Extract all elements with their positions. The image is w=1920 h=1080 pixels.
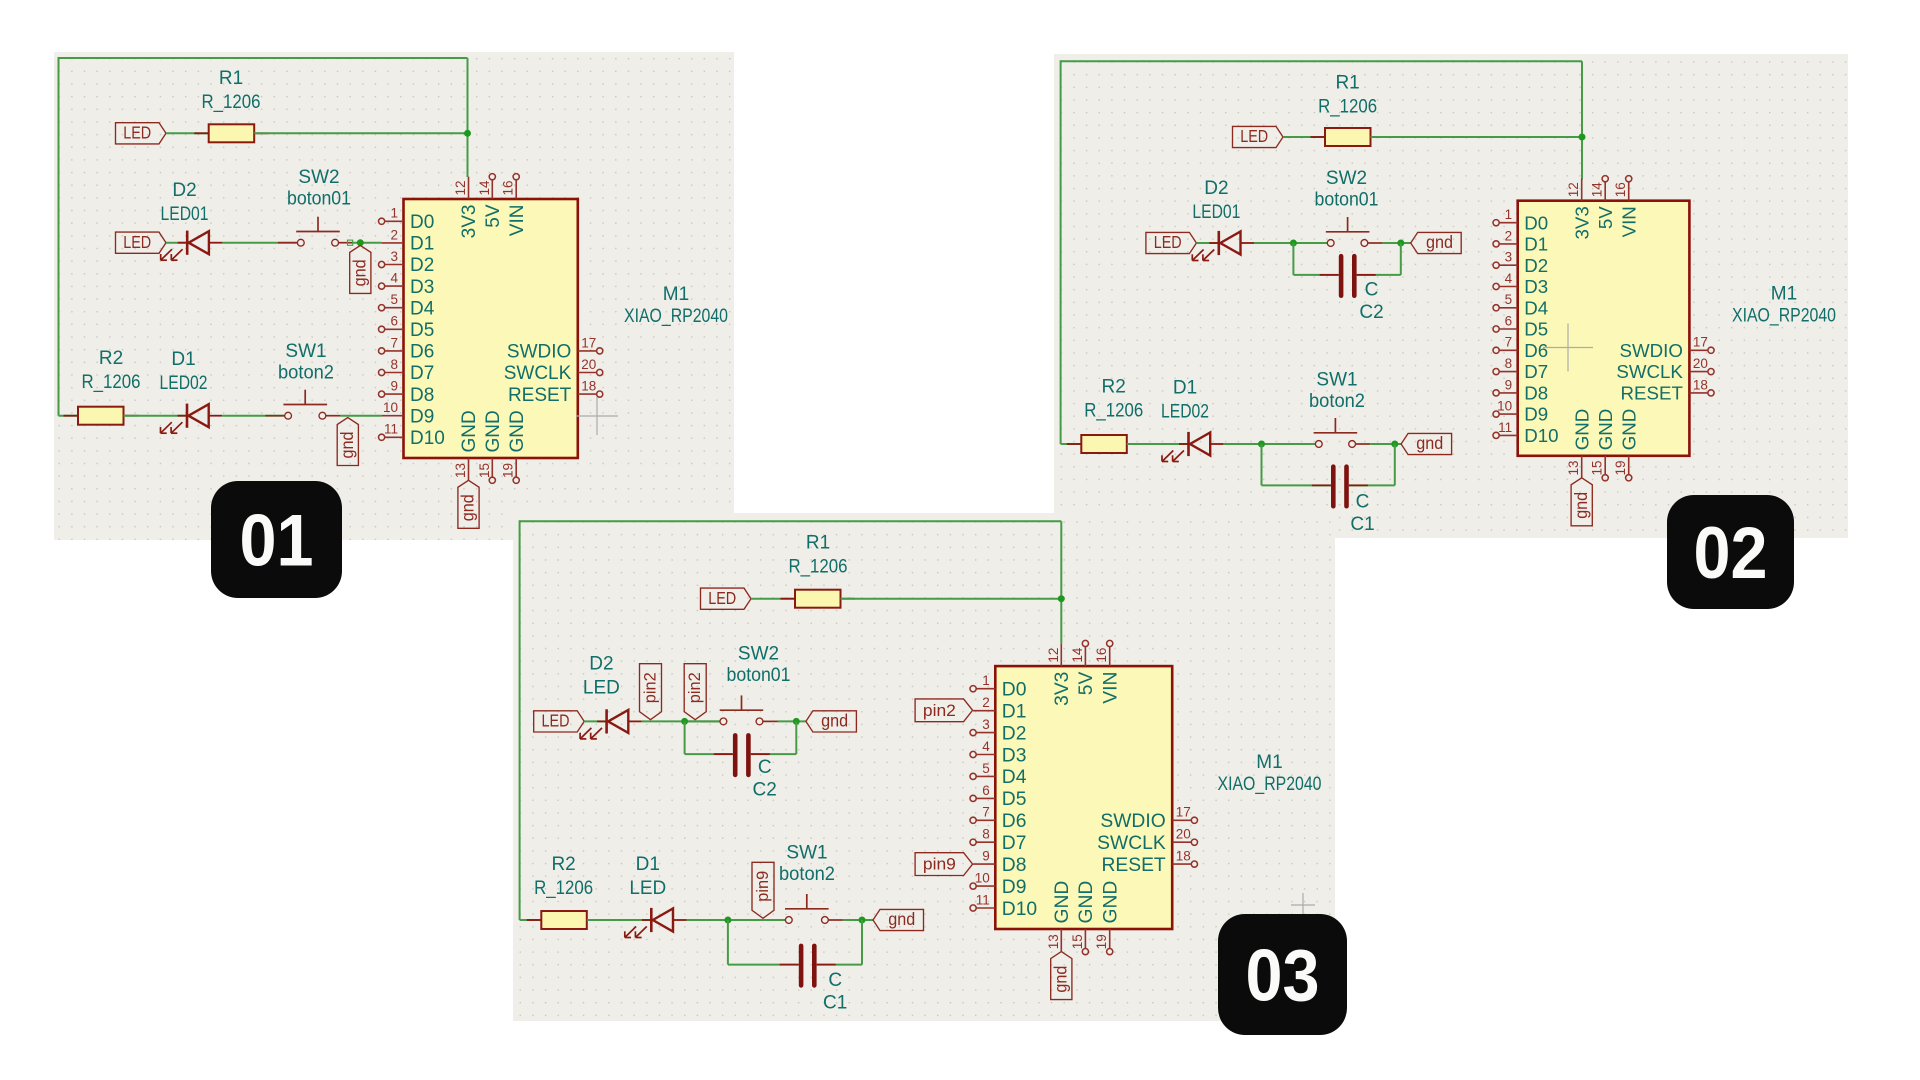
svg-text:D6: D6 (410, 342, 434, 363)
svg-text:R1: R1 (806, 532, 830, 553)
svg-text:GND: GND (459, 410, 480, 452)
svg-text:12: 12 (453, 180, 468, 195)
svg-text:15: 15 (1070, 934, 1085, 949)
hier label pin2 at pin D1 (panel 03) (915, 699, 973, 722)
junction right of SW1 (panel 03) (859, 917, 866, 924)
pin 20 SWCLK (panel 03) (1097, 827, 1197, 854)
svg-text:D4: D4 (1002, 767, 1027, 788)
label C of C2 (panel 03) (758, 757, 772, 778)
pin 3 D2 (panel 01) (379, 249, 435, 276)
svg-text:R_1206: R_1206 (82, 372, 141, 393)
switch SW1 boton2 (panel 02) (1296, 418, 1370, 447)
junction right of SW2 (panel 02) (1397, 240, 1404, 247)
label value of D2 (panel 03) (583, 678, 620, 699)
svg-text:C2: C2 (1359, 302, 1383, 323)
svg-text:SW2: SW2 (1326, 168, 1367, 189)
pin 4 D3 (panel 01) (379, 271, 435, 298)
svg-text:D9: D9 (1002, 877, 1027, 898)
power flag gnd below pin 13 (panel 01) (458, 480, 479, 528)
power label gnd row3 (panel 02) (1401, 433, 1452, 454)
power label gnd row2 (panel 03) (806, 711, 857, 732)
capacitor C2 (panel 03) (714, 735, 770, 775)
power label gnd row2 (panel 01) (350, 245, 371, 293)
cursor crosshair (panel 03) (1291, 893, 1315, 917)
svg-text:17: 17 (1176, 805, 1191, 820)
svg-text:15: 15 (477, 463, 492, 478)
svg-text:C1: C1 (1350, 514, 1374, 535)
wire SW2 to gnd (panel 02) (1382, 242, 1410, 244)
pin 13 GND (panel 03) (1046, 881, 1073, 952)
svg-text:D3: D3 (1002, 745, 1027, 766)
svg-text:8: 8 (1505, 356, 1513, 371)
pin 8 D7 (panel 02) (1493, 356, 1548, 382)
svg-text:gnd: gnd (1416, 433, 1443, 453)
pin 19 GND (panel 01) (501, 410, 528, 483)
svg-text:18: 18 (1693, 377, 1708, 392)
wire D2 to SW2 (panel 03) (642, 720, 720, 722)
pin 11 D10 (panel 01) (379, 422, 445, 449)
label R_1206 of R1 (panel 02) (1318, 96, 1377, 117)
svg-text:4: 4 (1505, 271, 1513, 286)
wire LED flag to D2 (panel 01) (166, 242, 187, 244)
svg-text:SWDIO: SWDIO (507, 342, 571, 363)
svg-text:D1: D1 (1524, 234, 1548, 255)
svg-text:M1: M1 (1771, 284, 1797, 305)
svg-text:2: 2 (1505, 228, 1513, 243)
svg-text:10: 10 (383, 400, 398, 415)
svg-text:D7: D7 (410, 363, 434, 384)
power flag gnd below pin 13 (panel 03) (1051, 952, 1072, 1000)
svg-text:9: 9 (390, 379, 398, 394)
label D1 (panel 01) (171, 349, 195, 370)
svg-text:11: 11 (384, 422, 398, 437)
label C of C1 (panel 02) (1356, 492, 1370, 513)
svg-text:10: 10 (1497, 399, 1512, 414)
svg-text:14: 14 (1070, 647, 1085, 663)
pin 13 GND (panel 01) (453, 410, 480, 480)
wire SW1 to gnd (panel 02) (1370, 443, 1401, 445)
svg-text:SWCLK: SWCLK (1097, 833, 1166, 854)
svg-text:1: 1 (1505, 207, 1513, 222)
capacitor C1 (panel 03) (780, 946, 836, 986)
wire R2 to D1 (panel 03) (587, 919, 652, 921)
label value of D2 (panel 01) (161, 204, 209, 225)
wire LED flag to R1 (panel 01) (166, 132, 209, 134)
svg-text:D1: D1 (171, 349, 195, 370)
label boton01 (panel 02) (1315, 190, 1379, 211)
hier label pin9 on wire (panel 03) (752, 862, 774, 918)
label C1 (panel 02) (1350, 514, 1374, 535)
pin 14 5V (panel 02) (1590, 176, 1616, 229)
svg-text:3V3: 3V3 (1052, 672, 1073, 706)
svg-text:D4: D4 (1524, 297, 1548, 318)
pin 17 SWDIO (panel 03) (1100, 805, 1197, 832)
svg-text:4: 4 (390, 271, 398, 286)
svg-text:SW2: SW2 (738, 643, 779, 664)
svg-text:D7: D7 (1524, 361, 1548, 382)
svg-text:LED: LED (123, 123, 151, 143)
svg-text:9: 9 (982, 849, 990, 864)
pin 15 GND (panel 03) (1070, 881, 1097, 955)
svg-text:GND: GND (1076, 881, 1097, 924)
svg-text:12: 12 (1046, 648, 1061, 663)
wire rail to R2 (panel 02) (1061, 443, 1082, 445)
junction left of SW2 (panel 02) (1290, 240, 1297, 247)
svg-text:R_1206: R_1206 (1318, 96, 1377, 117)
svg-text:D1: D1 (1002, 702, 1027, 723)
svg-text:LED: LED (123, 232, 151, 252)
pin 16 VIN (panel 02) (1613, 176, 1639, 238)
svg-text:1: 1 (982, 673, 990, 688)
svg-text:D5: D5 (1524, 319, 1548, 340)
svg-text:D0: D0 (1002, 680, 1027, 701)
svg-text:GND: GND (1618, 409, 1639, 451)
svg-text:15: 15 (1590, 460, 1605, 475)
pin 2 D1 (panel 03) (973, 695, 1026, 722)
pin 19 GND (panel 03) (1094, 881, 1121, 955)
svg-text:gnd: gnd (821, 711, 848, 731)
svg-text:VIN: VIN (1618, 206, 1639, 237)
resistor R2 (panel 02) (1067, 435, 1142, 453)
label value of D2 (panel 02) (1192, 202, 1240, 223)
label SW1 (panel 02) (1316, 369, 1357, 390)
svg-text:GND: GND (1101, 881, 1122, 924)
label C of C2 (panel 02) (1365, 280, 1379, 301)
LED D2 (panel 03) (580, 709, 642, 739)
wire D2 junction (panel 02) (1293, 242, 1326, 244)
wire SW1 to gnd (panel 03) (843, 919, 873, 921)
pin 8 D7 (panel 03) (970, 827, 1026, 854)
svg-text:10: 10 (975, 871, 990, 886)
svg-text:C: C (1365, 280, 1379, 301)
svg-text:18: 18 (581, 379, 596, 394)
wire D1 to SW1 (panel 02) (1224, 443, 1315, 445)
junction right of SW2 (panel 03) (793, 718, 800, 725)
svg-text:14: 14 (477, 180, 492, 196)
svg-text:03: 03 (1246, 936, 1320, 1017)
global label LED net row2 (panel 02) (1146, 232, 1197, 253)
wire cap C1 left (panel 02) (1262, 444, 1331, 485)
label D2 (panel 02) (1204, 178, 1228, 199)
label D2 (panel 03) (589, 654, 613, 675)
wire R1 to 3V3 rail (panel 02) (1371, 136, 1583, 138)
svg-text:D10: D10 (1524, 425, 1558, 446)
pin 18 RESET (panel 01) (508, 379, 603, 406)
svg-text:SW1: SW1 (786, 843, 827, 864)
label R_1206 of R2 (panel 01) (82, 372, 141, 393)
pin 7 D6 (panel 01) (379, 335, 435, 362)
svg-text:11: 11 (976, 892, 990, 907)
wire top rail LED net (panel 01) (59, 57, 468, 59)
svg-text:6: 6 (982, 783, 990, 798)
cursor crosshair (panel 01) (576, 397, 618, 435)
wire R1 to 3V3 rail (panel 03) (841, 598, 1062, 600)
pin 19 GND (panel 02) (1613, 409, 1639, 481)
svg-text:D2: D2 (1002, 723, 1027, 744)
schematic sheet background (panel 01) (54, 52, 734, 540)
LED D2 (panel 02) (1192, 231, 1254, 261)
pin 8 D7 (panel 01) (379, 357, 435, 384)
label D1 (panel 02) (1173, 377, 1197, 398)
svg-text:pin2: pin2 (686, 672, 704, 703)
wire D2 junction (panel 03) (685, 720, 720, 722)
pin 5 D4 (panel 02) (1493, 292, 1548, 318)
svg-text:boton2: boton2 (1309, 391, 1365, 412)
label SW2 (panel 03) (738, 643, 779, 664)
svg-text:SWDIO: SWDIO (1620, 340, 1683, 361)
resistor R2 (panel 03) (527, 911, 602, 929)
svg-text:D3: D3 (410, 277, 434, 298)
wire cap C2 right (panel 02) (1357, 243, 1401, 275)
label R2 (panel 01) (99, 348, 123, 369)
label XIAO_RP2040 (panel 02) (1732, 306, 1836, 327)
svg-text:D6: D6 (1002, 811, 1027, 832)
junction left of SW2 (panel 03) (681, 718, 688, 725)
junction left of SW1 (panel 02) (1258, 441, 1265, 448)
svg-text:D5: D5 (410, 320, 434, 341)
svg-text:LED02: LED02 (1161, 401, 1209, 422)
svg-text:boton01: boton01 (1315, 190, 1379, 211)
label SW2 (panel 02) (1326, 168, 1367, 189)
svg-text:4: 4 (982, 739, 990, 754)
svg-text:D10: D10 (1002, 899, 1037, 920)
svg-text:D1: D1 (410, 234, 434, 255)
svg-text:LED01: LED01 (1192, 202, 1240, 223)
svg-text:D2: D2 (172, 180, 196, 201)
svg-text:C: C (1356, 492, 1370, 513)
wire 3V3 drop (panel 03) (1060, 521, 1062, 643)
capacitor C2 (panel 02) (1320, 256, 1376, 296)
wire SW2 to pin D1 (panel 01) (353, 242, 382, 244)
pin 12 3V3 (panel 01) (453, 177, 480, 239)
IC M1 body XIAO_RP2040 (panel 02) (1518, 201, 1690, 456)
pin 1 D0 (panel 03) (970, 673, 1026, 700)
LED D1 (panel 03) (625, 908, 687, 938)
pin 17 SWDIO (panel 02) (1620, 335, 1715, 361)
wire left rail (panel 03) (519, 520, 521, 920)
pin 4 D3 (panel 02) (1493, 271, 1548, 297)
label value of D1 (panel 03) (629, 878, 666, 899)
label R1 (panel 02) (1335, 72, 1359, 93)
svg-text:02: 02 (1694, 513, 1768, 594)
label SW1 (panel 03) (786, 843, 827, 864)
svg-text:1: 1 (390, 206, 398, 221)
svg-text:6: 6 (390, 314, 398, 329)
svg-text:16: 16 (1613, 182, 1628, 197)
pin 5 D4 (panel 03) (970, 761, 1027, 788)
svg-text:9: 9 (1505, 377, 1513, 392)
label C2 (panel 03) (753, 780, 777, 801)
wire end marker (panel 01) (348, 240, 353, 245)
label R_1206 of R2 (panel 02) (1084, 401, 1143, 422)
svg-text:LED: LED (708, 588, 736, 608)
resistor R1 (panel 01) (194, 124, 269, 142)
wire left rail (panel 02) (1060, 60, 1062, 444)
svg-text:pin9: pin9 (754, 871, 772, 902)
svg-text:R_1206: R_1206 (1084, 401, 1143, 422)
resistor R1 (panel 03) (781, 590, 856, 608)
svg-text:12: 12 (1566, 182, 1581, 197)
wire R2 to D1 (panel 02) (1127, 443, 1189, 445)
svg-text:3: 3 (390, 249, 398, 264)
label R1 (panel 01) (219, 68, 243, 89)
svg-text:GND: GND (483, 410, 504, 452)
svg-text:19: 19 (501, 463, 516, 478)
svg-text:D9: D9 (1524, 404, 1548, 425)
svg-text:boton01: boton01 (727, 665, 791, 686)
svg-text:D4: D4 (410, 298, 435, 319)
resistor R1 (panel 02) (1311, 128, 1386, 146)
svg-text:M1: M1 (663, 284, 689, 305)
svg-text:3: 3 (1505, 250, 1513, 265)
svg-text:5: 5 (390, 292, 398, 307)
svg-text:8: 8 (982, 827, 990, 842)
svg-text:boton01: boton01 (287, 189, 351, 210)
svg-text:boton2: boton2 (779, 864, 835, 885)
wire cap C2 right (panel 03) (751, 721, 797, 754)
svg-text:RESET: RESET (1101, 855, 1165, 876)
switch SW1 boton2 (panel 01) (265, 390, 340, 419)
wire LED flag to R1 (panel 03) (751, 598, 795, 600)
svg-text:GND: GND (1595, 409, 1616, 451)
svg-text:RESET: RESET (1621, 383, 1683, 404)
pin 13 GND (panel 02) (1566, 409, 1592, 478)
svg-text:XIAO_RP2040: XIAO_RP2040 (1732, 306, 1836, 327)
svg-text:R2: R2 (1102, 377, 1126, 398)
pin 1 D0 (panel 02) (1493, 207, 1548, 233)
svg-text:8: 8 (390, 357, 398, 372)
power label gnd row2 (panel 02) (1411, 232, 1462, 253)
schematic sheet background (panel 02) (1054, 54, 1848, 538)
wire D1 to SW1 (panel 01) (222, 415, 284, 417)
pin 15 GND (panel 02) (1590, 409, 1616, 481)
svg-text:LED: LED (542, 711, 570, 731)
svg-text:pin2: pin2 (642, 672, 660, 703)
label XIAO_RP2040 (panel 03) (1218, 774, 1322, 795)
svg-text:LED01: LED01 (161, 204, 209, 225)
svg-text:19: 19 (1613, 460, 1628, 475)
global label LED net row2 (panel 01) (116, 232, 167, 253)
svg-text:5: 5 (982, 761, 990, 776)
svg-text:16: 16 (501, 180, 516, 195)
label D2 (panel 01) (172, 180, 196, 201)
label R1 (panel 03) (806, 532, 830, 553)
svg-text:20: 20 (581, 357, 596, 372)
svg-text:LED: LED (1240, 126, 1268, 146)
pin 6 D5 (panel 03) (970, 783, 1026, 810)
svg-text:D2: D2 (589, 654, 613, 675)
pin 2 D1 (panel 02) (1493, 228, 1548, 254)
svg-text:SW2: SW2 (298, 167, 339, 188)
svg-text:D0: D0 (1524, 212, 1548, 233)
power label gnd row3 (panel 01) (337, 418, 358, 466)
svg-text:R_1206: R_1206 (789, 556, 848, 577)
pin 10 D9 (panel 01) (382, 400, 435, 427)
pin 15 GND (panel 01) (477, 410, 504, 483)
pin 1 D0 (panel 01) (379, 206, 435, 233)
capacitor C1 (panel 02) (1312, 467, 1368, 507)
pin 18 RESET (panel 03) (1101, 849, 1197, 876)
svg-text:SWCLK: SWCLK (504, 363, 572, 384)
wire D2 to SW2 (panel 01) (222, 242, 296, 244)
wire top rail LED net (panel 02) (1061, 60, 1582, 62)
wire SW2 to gnd (panel 03) (778, 720, 806, 722)
svg-text:16: 16 (1094, 648, 1109, 663)
svg-text:C: C (758, 757, 772, 778)
junction R1/3V3 (panel 02) (1579, 134, 1586, 141)
junction left of SW1 (panel 03) (724, 917, 731, 924)
svg-text:R_1206: R_1206 (202, 92, 261, 113)
hier label pin2 on wire b (panel 03) (684, 664, 706, 720)
pin 11 D10 (panel 03) (970, 892, 1037, 919)
wire cap C1 left (panel 03) (728, 920, 799, 965)
switch SW1 boton2 (panel 03) (766, 894, 843, 923)
svg-text:13: 13 (453, 463, 468, 478)
svg-text:D2: D2 (1524, 255, 1548, 276)
label SW2 (panel 01) (298, 167, 339, 188)
junction R1/3V3 (panel 01) (464, 130, 471, 137)
wire LED flag to R1 (panel 02) (1283, 136, 1325, 138)
svg-text:D0: D0 (410, 212, 434, 233)
pin 16 VIN (panel 01) (501, 174, 528, 237)
LED D1 (panel 02) (1162, 432, 1224, 462)
power label gnd row3 (panel 03) (873, 909, 924, 930)
svg-text:D8: D8 (410, 385, 434, 406)
svg-text:D2: D2 (410, 255, 434, 276)
svg-text:18: 18 (1176, 849, 1191, 864)
pin 3 D2 (panel 02) (1493, 250, 1548, 276)
svg-text:gnd: gnd (888, 909, 915, 929)
svg-text:11: 11 (1498, 420, 1512, 435)
svg-text:D8: D8 (1002, 855, 1027, 876)
pin 9 D8 (panel 03) (973, 849, 1026, 876)
hier label pin2 on wire a (panel 03) (640, 664, 662, 720)
pin 7 D6 (panel 03) (970, 805, 1026, 832)
svg-text:gnd: gnd (1571, 492, 1591, 519)
wire cap C1 right (panel 03) (817, 920, 862, 965)
LED D2 (panel 01) (161, 231, 223, 261)
switch SW2 boton01 (panel 03) (701, 695, 778, 724)
svg-text:GND: GND (1571, 409, 1592, 451)
pin 14 5V (panel 03) (1070, 640, 1097, 695)
svg-text:SWCLK: SWCLK (1616, 361, 1683, 382)
label M1 (panel 03) (1256, 752, 1282, 773)
wire 3V3 drop (panel 01) (467, 58, 469, 177)
svg-text:14: 14 (1590, 182, 1605, 198)
power flag gnd below pin 13 (panel 02) (1571, 478, 1592, 526)
svg-text:7: 7 (982, 805, 990, 820)
number badge 03 (1218, 914, 1347, 1035)
wire D1 to SW1 (panel 03) (687, 919, 785, 921)
svg-text:D8: D8 (1524, 383, 1548, 404)
wire cap C2 left (panel 03) (685, 721, 733, 754)
svg-text:20: 20 (1693, 356, 1708, 371)
resistor R2 (panel 01) (64, 407, 139, 425)
svg-text:VIN: VIN (507, 205, 528, 237)
svg-text:5V: 5V (1076, 671, 1097, 695)
label boton2 (panel 01) (278, 363, 334, 384)
svg-text:17: 17 (1693, 335, 1708, 350)
svg-text:7: 7 (1505, 335, 1513, 350)
junction gnd label row2 (panel 01) (357, 239, 364, 246)
label R_1206 of R1 (panel 03) (789, 556, 848, 577)
label M1 (panel 02) (1771, 284, 1797, 305)
global label LED net row1 (panel 01) (116, 123, 167, 144)
svg-text:pin2: pin2 (923, 701, 956, 720)
svg-text:3V3: 3V3 (459, 205, 480, 239)
label value of D1 (panel 02) (1161, 401, 1209, 422)
svg-text:D2: D2 (1204, 178, 1228, 199)
